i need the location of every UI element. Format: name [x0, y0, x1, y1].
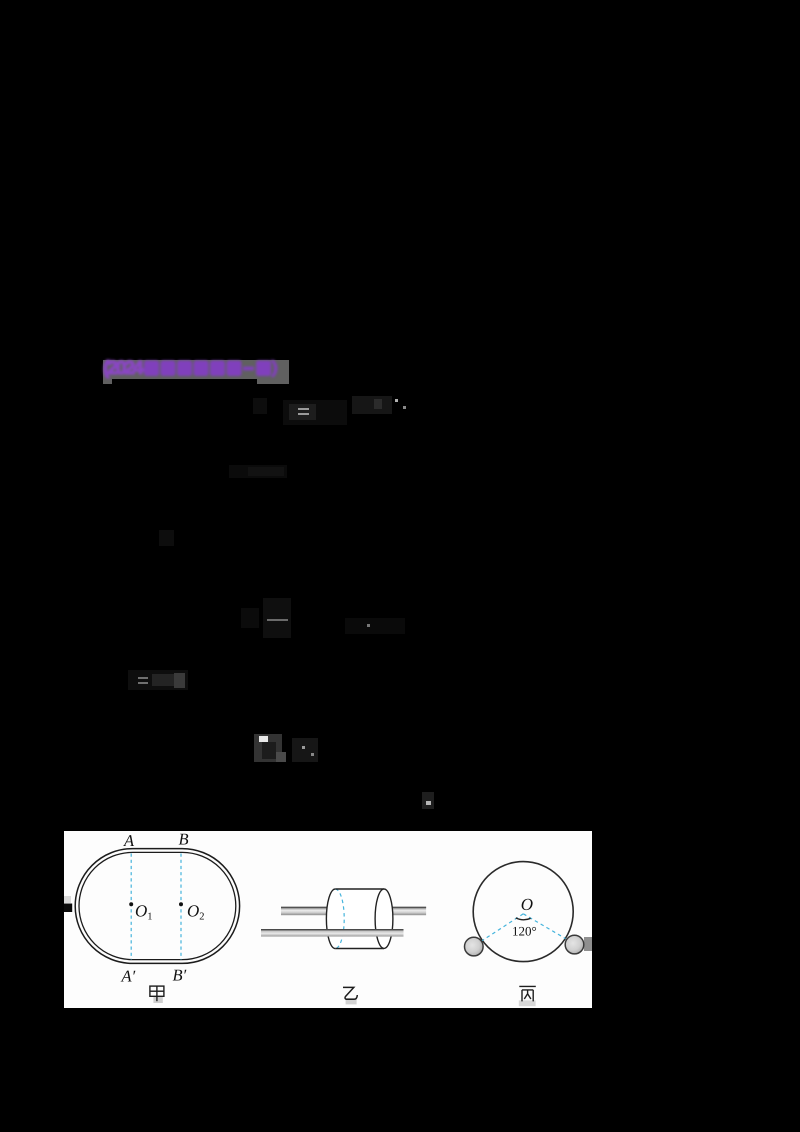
丙: circle	[473, 862, 573, 962]
svg-text:120°: 120°	[512, 923, 537, 938]
faint formula remnant 2	[229, 465, 287, 478]
heading purple text	[103, 358, 291, 380]
乙: cylinder body	[335, 889, 384, 949]
乙: left face dashed arc	[335, 889, 344, 949]
丙: angle arc	[516, 918, 531, 920]
甲: left gray square on edge	[64, 896, 71, 903]
faint y=2m remnant 5	[128, 670, 188, 690]
heading band tab right	[257, 377, 289, 384]
faint fraction remnant 4	[263, 598, 291, 638]
svg-text:B′: B′	[173, 965, 187, 984]
figure svg	[64, 831, 592, 1008]
乙: right face ellipse	[375, 889, 393, 948]
乙: upper rod right	[393, 907, 427, 915]
faint t remnant 7	[422, 792, 434, 809]
heading band	[103, 360, 289, 379]
甲: dashed line B-B'	[180, 854, 182, 960]
丙: right ball	[565, 935, 584, 954]
乙: cylinder top line	[335, 888, 384, 890]
乙: left face solid arc	[326, 889, 335, 949]
figure white panel	[64, 831, 592, 1008]
faint formula remnant 1: omega = 100	[283, 400, 347, 425]
faint R remnant 6	[254, 734, 282, 762]
svg-text:A′: A′	[121, 966, 136, 985]
丙: dashed ray left	[482, 914, 523, 941]
svg-text:O: O	[521, 895, 533, 914]
svg-text:B: B	[179, 831, 189, 848]
丙: right edge gray nub	[584, 937, 592, 951]
甲: inner stadium	[79, 852, 236, 959]
甲: left black tab	[64, 904, 72, 913]
甲: caption glyph jia	[153, 997, 162, 1003]
乙: upper rod left	[281, 907, 327, 915]
faint formula remnant 3	[159, 530, 174, 546]
丙: dashed ray right	[523, 914, 565, 939]
乙: caption glyph yi	[346, 998, 357, 1004]
丙: caption glyph bing	[519, 1000, 536, 1006]
乙: cylinder bottom line	[335, 948, 384, 950]
甲: dot O1	[129, 902, 133, 906]
svg-text:A: A	[123, 831, 135, 850]
svg-text:O1: O1	[135, 902, 153, 923]
svg-text:O2: O2	[187, 902, 205, 923]
heading band tab left	[103, 377, 112, 384]
乙: lower bar	[261, 929, 404, 937]
丙: left ball	[465, 937, 484, 956]
甲: outer stadium	[75, 849, 239, 964]
甲: dashed line A-A'	[130, 854, 132, 960]
甲: dot O2	[179, 902, 183, 906]
